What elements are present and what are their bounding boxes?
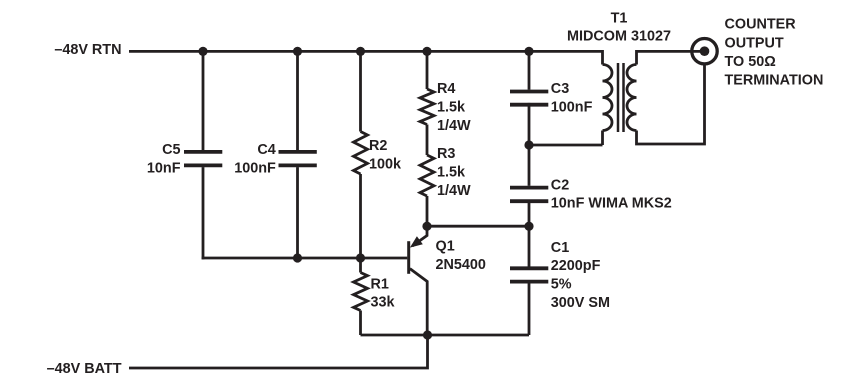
svg-text:1/4W: 1/4W — [437, 183, 471, 199]
svg-text:5%: 5% — [551, 277, 572, 293]
junction node top rail at R4 — [422, 47, 431, 56]
svg-text:C1: C1 — [551, 240, 569, 256]
svg-text:300V SM: 300V SM — [551, 295, 610, 311]
svg-text:R3: R3 — [437, 146, 455, 162]
junction node bottom at collector — [423, 330, 432, 339]
coax connector center pin — [700, 46, 710, 56]
svg-text:MIDCOM 31027: MIDCOM 31027 — [567, 29, 671, 45]
svg-text:R2: R2 — [369, 138, 387, 154]
svg-text:100nF: 100nF — [234, 161, 276, 177]
svg-text:10nF: 10nF — [147, 161, 181, 177]
transistor Q1 emitter arrowhead — [410, 236, 423, 247]
svg-text:C4: C4 — [257, 142, 275, 158]
svg-text:T1: T1 — [611, 10, 628, 26]
svg-text:1.5k: 1.5k — [437, 164, 466, 180]
wire base node rail — [202, 257, 408, 260]
svg-text:Q1: Q1 — [436, 239, 455, 255]
transformer T1 core — [618, 63, 624, 132]
svg-text:100nF: 100nF — [551, 99, 593, 115]
junction node base rail at C4 — [293, 253, 302, 262]
junction node top rail at C4 — [293, 47, 302, 56]
svg-text:10nF WIMA MKS2: 10nF WIMA MKS2 — [551, 196, 672, 212]
wire bottom node — [361, 334, 530, 337]
svg-text:OUTPUT: OUTPUT — [725, 35, 784, 51]
wire C3/C2 node to transformer — [529, 144, 603, 147]
resistor R1 — [354, 258, 368, 335]
svg-text:2N5400: 2N5400 — [436, 257, 486, 273]
svg-text:–48V BATT: –48V BATT — [47, 361, 122, 377]
resistor R3 — [420, 125, 434, 227]
wire -48V BATT rail — [129, 335, 428, 368]
svg-text:R4: R4 — [437, 81, 455, 97]
resistor R4 — [420, 51, 434, 124]
svg-text:C3: C3 — [551, 81, 569, 97]
junction node base rail at R2/R1 — [356, 253, 365, 262]
resistor R2 — [354, 51, 368, 258]
junction node top rail at C5 — [198, 47, 207, 56]
wire top rail -48V RTN — [129, 50, 603, 53]
capacitor C3 — [510, 51, 548, 145]
wire emitter node — [427, 225, 529, 228]
svg-text:TERMINATION: TERMINATION — [725, 73, 824, 89]
coax connector output jack — [692, 39, 717, 64]
junction node top rail at C3 — [524, 47, 533, 56]
transformer T1 primary winding — [603, 50, 613, 145]
transformer T1 secondary winding — [627, 51, 705, 144]
junction node top rail at R2 — [356, 47, 365, 56]
svg-text:2200pF: 2200pF — [551, 258, 601, 274]
svg-text:COUNTER: COUNTER — [725, 17, 797, 33]
transistor Q1 — [409, 226, 428, 335]
svg-text:33k: 33k — [371, 295, 396, 311]
capacitor C4 — [279, 51, 317, 258]
svg-text:C5: C5 — [162, 142, 180, 158]
svg-text:100k: 100k — [369, 156, 402, 172]
junction node C1 top — [524, 222, 533, 231]
svg-text:1.5k: 1.5k — [437, 100, 466, 116]
svg-text:TO 50Ω: TO 50Ω — [725, 54, 776, 70]
svg-text:1/4W: 1/4W — [437, 118, 471, 134]
capacitor C5 — [184, 51, 222, 259]
svg-text:R1: R1 — [371, 276, 389, 292]
junction node C3/C2/transformer — [524, 140, 533, 149]
capacitor C2 — [510, 145, 548, 226]
svg-text:C2: C2 — [551, 177, 569, 193]
svg-text:–48V RTN: –48V RTN — [54, 42, 121, 58]
junction node emitter/R3 — [422, 222, 431, 231]
capacitor C1 — [510, 226, 548, 335]
